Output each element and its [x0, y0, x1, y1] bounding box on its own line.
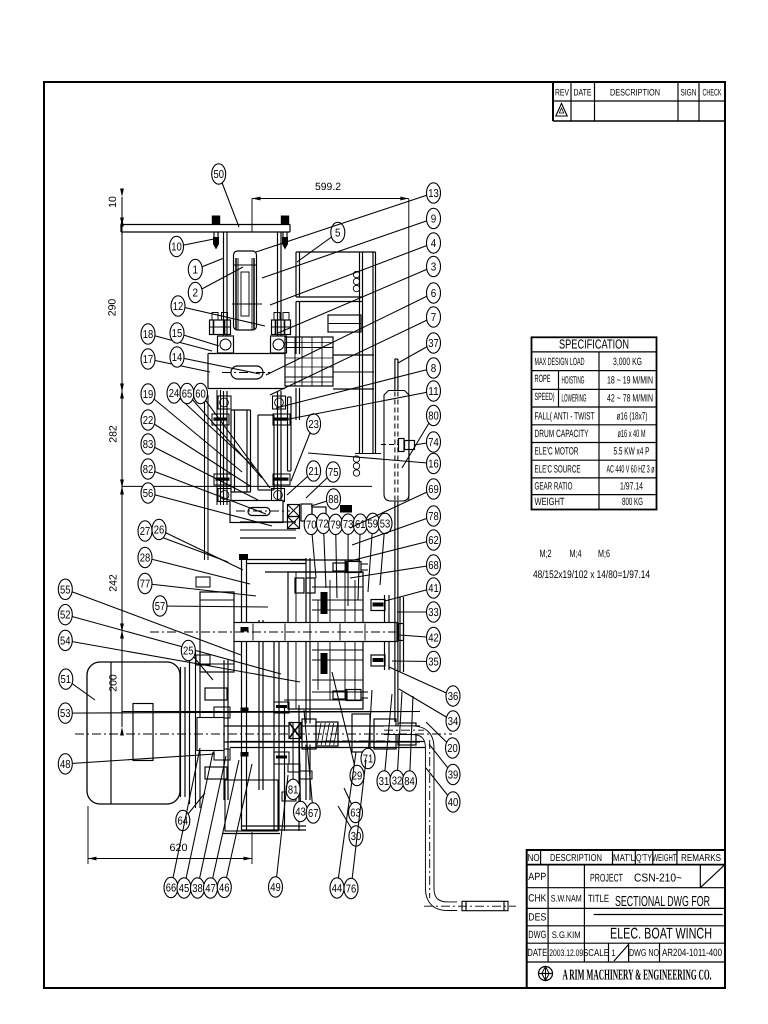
svg-text:60: 60 — [195, 389, 206, 401]
svg-text:53: 53 — [380, 518, 391, 530]
svg-text:26: 26 — [154, 525, 165, 537]
svg-text:AC 440 V 60 HZ 3 ø: AC 440 V 60 HZ 3 ø — [607, 464, 655, 476]
svg-text:5.5 KW x4 P: 5.5 KW x4 P — [614, 446, 650, 458]
svg-text:77: 77 — [140, 579, 151, 591]
svg-text:24: 24 — [169, 388, 180, 400]
svg-text:599.2: 599.2 — [315, 181, 341, 193]
svg-text:2003.12.09: 2003.12.09 — [549, 948, 583, 959]
svg-text:45: 45 — [179, 883, 190, 895]
svg-text:DRUM CAPACITY: DRUM CAPACITY — [535, 428, 589, 440]
svg-text:56: 56 — [143, 488, 154, 500]
svg-text:WEIGHT: WEIGHT — [535, 496, 565, 508]
svg-text:65: 65 — [182, 389, 193, 401]
svg-text:WEIGHT: WEIGHT — [653, 853, 677, 864]
svg-text:40: 40 — [448, 797, 459, 809]
svg-text:9: 9 — [431, 214, 437, 226]
svg-text:ø16 (18x7): ø16 (18x7) — [617, 411, 648, 423]
svg-text:18 ~ 19 M/MIN: 18 ~ 19 M/MIN — [607, 375, 653, 387]
svg-text:22: 22 — [143, 415, 154, 427]
svg-text:12: 12 — [173, 301, 184, 313]
svg-text:80: 80 — [428, 411, 439, 423]
svg-text:19: 19 — [143, 389, 154, 401]
svg-text:39: 39 — [448, 770, 459, 782]
svg-text:17: 17 — [143, 354, 154, 366]
svg-text:ELEC. BOAT WINCH: ELEC. BOAT WINCH — [610, 926, 712, 943]
svg-text:55: 55 — [60, 584, 71, 596]
svg-text:41: 41 — [428, 583, 439, 595]
svg-text:3: 3 — [431, 262, 437, 274]
svg-text:82: 82 — [143, 464, 154, 476]
svg-text:GEAR RATIO: GEAR RATIO — [535, 481, 573, 493]
svg-text:84: 84 — [404, 776, 415, 788]
svg-text:HOISTING: HOISTING — [562, 375, 585, 387]
svg-text:67: 67 — [308, 808, 319, 820]
svg-text:31: 31 — [379, 776, 390, 788]
svg-text:M;2: M;2 — [540, 548, 552, 560]
svg-text:APP: APP — [528, 871, 546, 883]
svg-text:75: 75 — [328, 467, 339, 479]
svg-text:70: 70 — [306, 519, 317, 531]
svg-text:PROJECT: PROJECT — [590, 873, 623, 885]
svg-text:10: 10 — [107, 196, 119, 208]
svg-text:ROPE: ROPE — [535, 373, 551, 385]
svg-text:MAT'L: MAT'L — [613, 853, 635, 864]
svg-text:50: 50 — [213, 169, 224, 181]
svg-text:76: 76 — [346, 884, 357, 896]
svg-text:DATE: DATE — [574, 88, 592, 99]
svg-text:37: 37 — [428, 338, 439, 350]
svg-text:1: 1 — [612, 948, 616, 959]
svg-text:79: 79 — [330, 519, 341, 531]
svg-text:14: 14 — [172, 352, 183, 364]
svg-text:NO: NO — [528, 853, 540, 864]
svg-text:AR204-1011-400: AR204-1011-400 — [662, 947, 722, 959]
svg-text:CSN-210~: CSN-210~ — [634, 873, 682, 885]
svg-text:57: 57 — [155, 601, 166, 613]
svg-text:MAX DESIGN LOAD: MAX DESIGN LOAD — [535, 356, 585, 368]
svg-text:47: 47 — [205, 883, 216, 895]
svg-text:21: 21 — [308, 466, 319, 478]
svg-text:54: 54 — [60, 635, 71, 647]
svg-text:88: 88 — [328, 494, 339, 506]
svg-text:M;4: M;4 — [570, 548, 582, 560]
svg-text:81: 81 — [288, 784, 299, 796]
svg-text:TITLE: TITLE — [588, 893, 609, 905]
svg-text:51: 51 — [61, 674, 72, 686]
svg-text:REV: REV — [555, 88, 569, 99]
svg-text:25: 25 — [183, 646, 194, 658]
svg-text:ELE'C MOTOR: ELE'C MOTOR — [535, 446, 579, 458]
svg-text:34: 34 — [448, 716, 459, 728]
svg-text:M;6: M;6 — [598, 548, 610, 560]
svg-text:38: 38 — [192, 883, 203, 895]
svg-text:800 KG: 800 KG — [622, 496, 643, 508]
svg-text:5: 5 — [335, 228, 341, 240]
svg-text:74: 74 — [428, 437, 439, 449]
svg-text:200: 200 — [108, 674, 120, 692]
svg-text:44: 44 — [332, 883, 343, 895]
svg-text:SPEED): SPEED) — [535, 391, 555, 403]
svg-text:6: 6 — [431, 288, 437, 300]
svg-text:27: 27 — [140, 526, 151, 538]
svg-text:11: 11 — [428, 386, 439, 398]
svg-text:10: 10 — [171, 242, 182, 254]
svg-text:LOWERING: LOWERING — [562, 393, 587, 405]
svg-text:4: 4 — [431, 238, 437, 250]
svg-text:15: 15 — [172, 328, 183, 340]
svg-text:DWG: DWG — [528, 929, 546, 941]
svg-text:DES: DES — [528, 912, 546, 924]
svg-text:FALL( ANTI - TWIST: FALL( ANTI - TWIST — [535, 411, 595, 423]
svg-text:18: 18 — [143, 329, 154, 341]
svg-text:DATE: DATE — [527, 947, 547, 959]
svg-text:72: 72 — [318, 518, 329, 530]
svg-text:28: 28 — [140, 553, 151, 565]
svg-text:48: 48 — [60, 759, 71, 771]
svg-text:1: 1 — [193, 265, 199, 277]
svg-text:DESCRIPTION: DESCRIPTION — [610, 88, 660, 99]
svg-text:DESCRIPTION: DESCRIPTION — [550, 853, 602, 864]
svg-text:53: 53 — [60, 708, 71, 720]
svg-text:CHK: CHK — [528, 893, 546, 905]
svg-text:32: 32 — [392, 776, 403, 788]
svg-text:73: 73 — [343, 519, 354, 531]
svg-text:290: 290 — [107, 299, 119, 317]
svg-text:13: 13 — [428, 188, 439, 200]
svg-text:23: 23 — [308, 419, 319, 431]
svg-text:SCALE: SCALE — [583, 948, 609, 959]
svg-text:1/97.14: 1/97.14 — [620, 481, 643, 493]
svg-text:48/152x19/102 x 14/80=1/97.1: 48/152x19/102 x 14/80=1/97.14 — [533, 569, 650, 581]
svg-text:282: 282 — [108, 425, 120, 443]
svg-text:59: 59 — [368, 518, 379, 530]
svg-text:69: 69 — [428, 484, 439, 496]
svg-text:DWG NO: DWG NO — [629, 948, 659, 959]
svg-text:46: 46 — [219, 882, 230, 894]
svg-text:66: 66 — [166, 883, 177, 895]
svg-text:8: 8 — [431, 363, 437, 375]
svg-text:43: 43 — [295, 807, 306, 819]
svg-text:242: 242 — [108, 574, 120, 592]
svg-text:62: 62 — [428, 535, 439, 547]
svg-text:33: 33 — [428, 607, 439, 619]
svg-text:S.W.NAM: S.W.NAM — [551, 894, 582, 905]
svg-text:7: 7 — [431, 312, 437, 324]
svg-text:71: 71 — [363, 754, 374, 766]
svg-text:CHECK: CHECK — [703, 88, 722, 99]
svg-text:3,000 KG: 3,000 KG — [613, 356, 642, 368]
svg-text:20: 20 — [447, 743, 458, 755]
svg-text:68: 68 — [428, 560, 439, 572]
svg-text:78: 78 — [428, 511, 439, 523]
svg-text:SPECIFICATION: SPECIFICATION — [559, 337, 629, 352]
svg-text:42 ~ 78 M/MIN: 42 ~ 78 M/MIN — [607, 393, 653, 405]
svg-text:S.G.KIM: S.G.KIM — [552, 930, 581, 941]
svg-text:ELE'C SOURCE: ELE'C SOURCE — [535, 464, 581, 476]
svg-text:REMARKS: REMARKS — [681, 853, 721, 864]
svg-text:Q'TY: Q'TY — [636, 853, 652, 864]
svg-text:36: 36 — [448, 691, 459, 703]
svg-text:SECTIONAL DWG FOR: SECTIONAL DWG FOR — [615, 894, 710, 910]
svg-text:16: 16 — [428, 459, 439, 471]
svg-text:49: 49 — [270, 882, 281, 894]
svg-text:A RIM MACHINERY & ENGINEERING: A RIM MACHINERY & ENGINEERING CO. — [563, 968, 712, 984]
svg-text:35: 35 — [428, 657, 439, 669]
svg-text:42: 42 — [428, 633, 439, 645]
svg-text:2: 2 — [193, 288, 199, 300]
svg-text:64: 64 — [178, 816, 189, 828]
svg-text:SIGN: SIGN — [681, 88, 697, 99]
svg-text:52: 52 — [60, 610, 71, 622]
svg-text:ø16 x 40 M: ø16 x 40 M — [618, 428, 646, 440]
svg-text:83: 83 — [143, 439, 154, 451]
